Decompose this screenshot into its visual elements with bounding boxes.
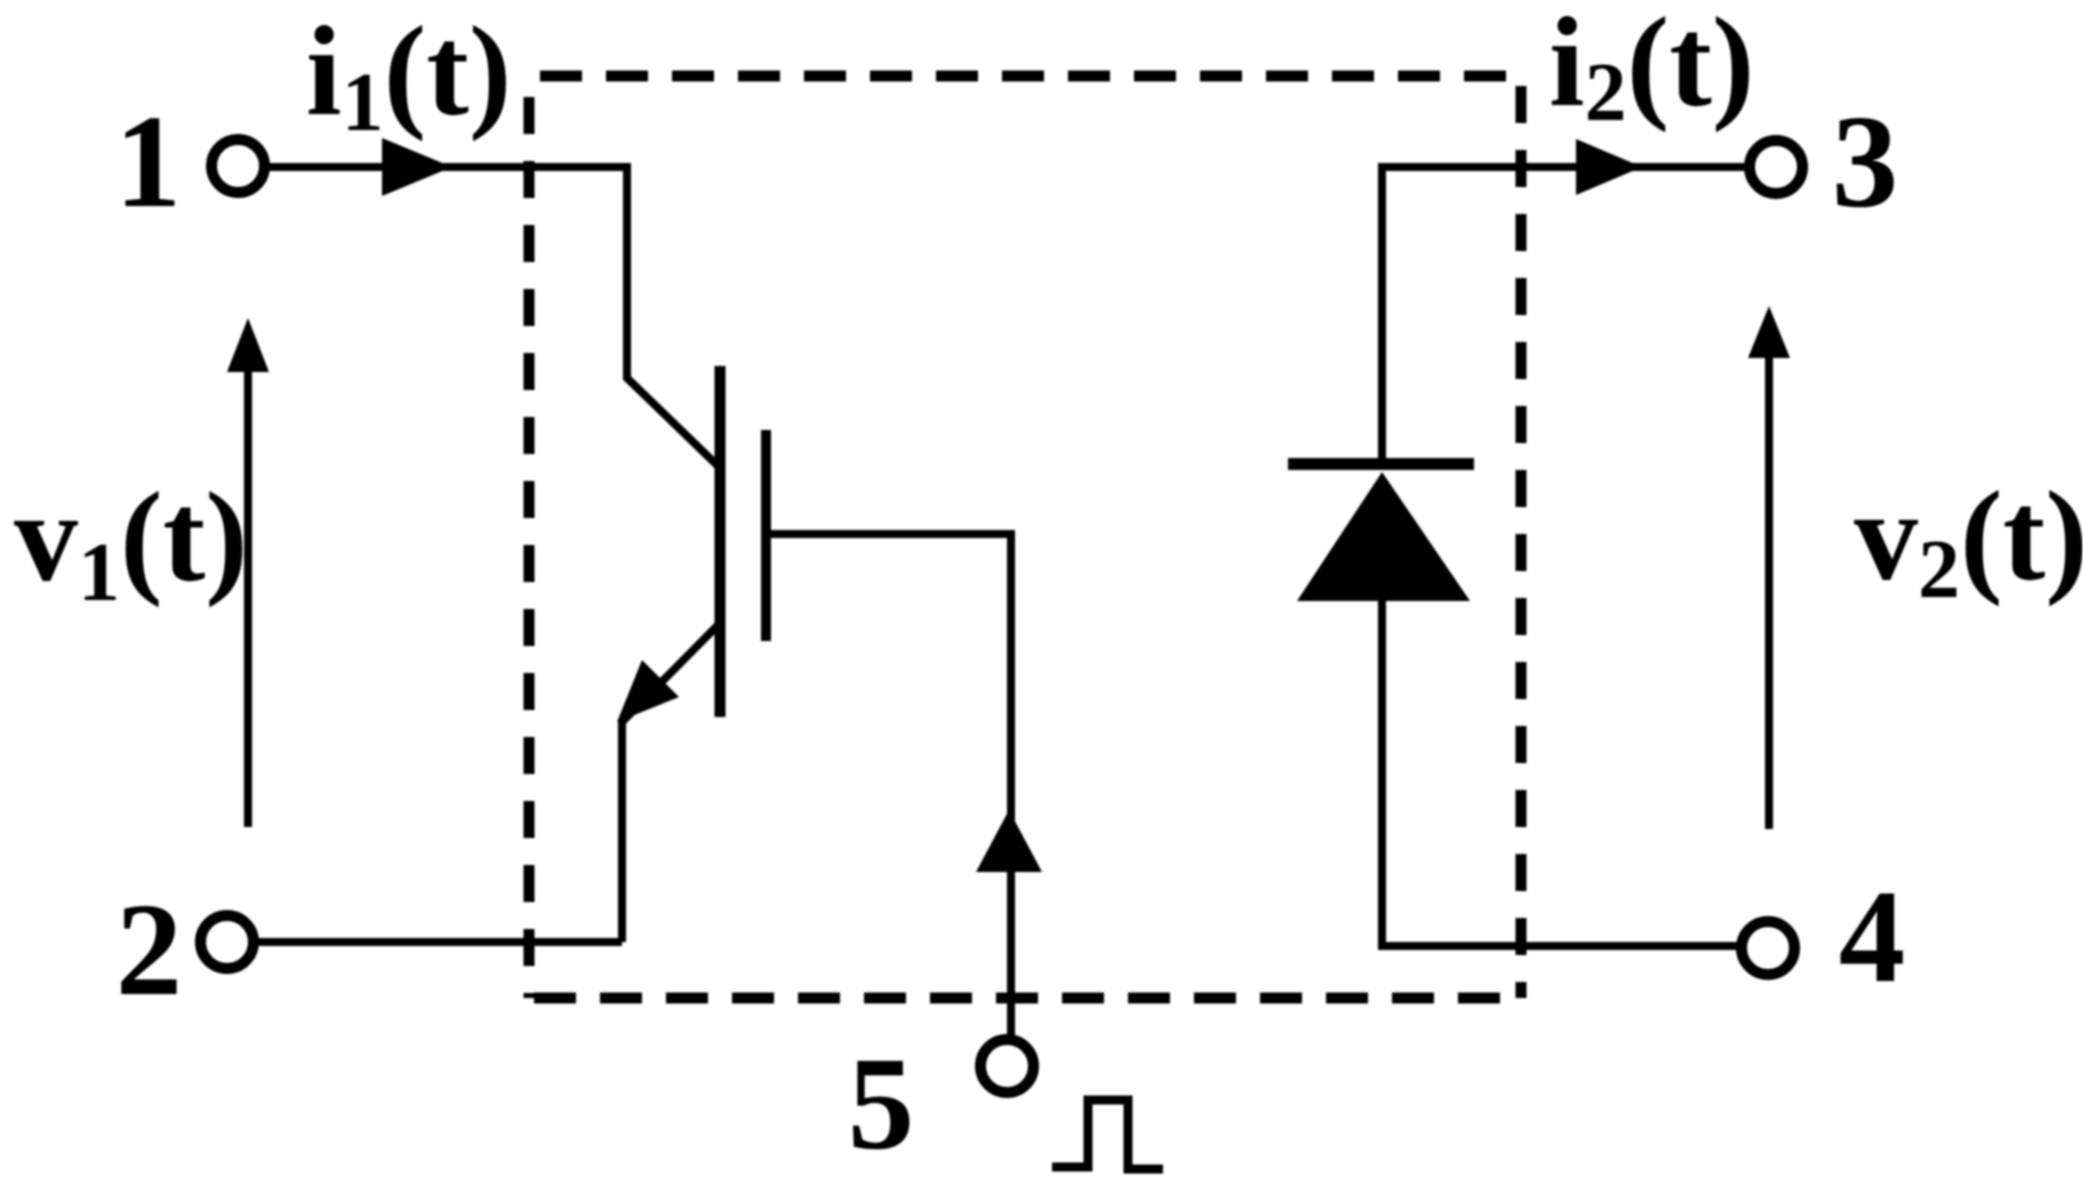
dashed boundary box (two-port module outline) <box>529 76 1521 998</box>
diode D1 anode wire to terminal 4 <box>1382 598 1738 946</box>
current arrow i2 <box>1576 139 1642 195</box>
diode D1 cathode wire to terminal 3 <box>1382 167 1746 464</box>
diode D1 triangle <box>1297 472 1470 601</box>
current arrow i1 <box>382 138 452 196</box>
IGBT Q1 gate bar <box>761 430 771 641</box>
terminal 4 <box>1742 922 1795 975</box>
voltage arrow v1 <box>244 370 252 827</box>
svg-text:i1(t): i1(t) <box>306 0 511 149</box>
diode D1 cathode bar <box>1288 458 1474 470</box>
svg-text:3: 3 <box>1832 87 1899 235</box>
svg-text:v2(t): v2(t) <box>1854 465 2083 616</box>
svg-text:v1(t): v1(t) <box>14 466 248 619</box>
svg-text:i2(t): i2(t) <box>1549 0 1754 139</box>
terminal 2 <box>201 916 254 969</box>
svg-text:2: 2 <box>116 875 183 1023</box>
terminal 1 <box>212 140 265 193</box>
IGBT emitter lead <box>622 624 719 942</box>
terminal 3 <box>1750 141 1803 194</box>
wire: terminal 2 to emitter <box>257 938 622 946</box>
IGBT Q1 body bar <box>715 366 726 717</box>
IGBT emitter arrowhead <box>617 660 679 722</box>
gate pulse symbol <box>1052 1100 1163 1169</box>
svg-text:5: 5 <box>848 1029 915 1177</box>
voltage arrow v2 <box>1765 352 1773 829</box>
svg-text:4: 4 <box>1839 862 1906 1010</box>
terminal 5 <box>981 1040 1034 1093</box>
svg-text:1: 1 <box>115 87 182 235</box>
gate drive arrowhead <box>976 810 1042 872</box>
wire: terminal 1 to IGBT collector <box>268 167 719 467</box>
gate wire to terminal 5 <box>771 534 1011 1036</box>
